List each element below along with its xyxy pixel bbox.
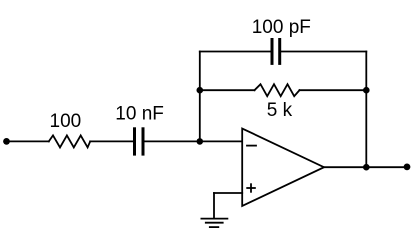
wire right feedback vertical — [365, 52, 367, 168]
node D junction dot — [363, 164, 370, 171]
capacitor C2 plates — [271, 38, 274, 65]
op-amp minus sign — [247, 145, 256, 147]
resistor R2 zigzag — [255, 84, 300, 96]
wire top feedback right segment — [281, 51, 366, 53]
output terminal dot — [404, 164, 411, 171]
wire op-amp non-inverting input — [214, 192, 242, 194]
svg-text:100: 100 — [50, 111, 82, 132]
svg-text:5 k: 5 k — [267, 100, 293, 121]
ground — [201, 218, 229, 220]
wire op-amp output — [324, 166, 407, 168]
capacitor C1 plates — [133, 127, 136, 155]
node C junction dot — [363, 87, 370, 94]
wire R1 to C1 — [90, 140, 133, 142]
wire mid feedback right segment — [300, 89, 367, 91]
resistor R1 zigzag — [49, 135, 90, 147]
wire top feedback left segment — [200, 51, 271, 53]
input terminal dot — [3, 138, 10, 145]
wire C1 to op-amp inverting input — [145, 140, 243, 142]
wire node A up to feedback — [199, 52, 201, 142]
wire mid feedback left segment — [200, 89, 255, 91]
node A junction dot — [197, 138, 204, 145]
op-amp U1 triangle — [242, 129, 324, 207]
node B junction dot — [197, 87, 204, 94]
svg-text:10 nF: 10 nF — [115, 103, 164, 124]
svg-text:100 pF: 100 pF — [252, 17, 311, 38]
op-amp plus sign — [247, 187, 255, 189]
wire input to R1 — [7, 140, 49, 142]
wire down to ground — [213, 193, 215, 219]
